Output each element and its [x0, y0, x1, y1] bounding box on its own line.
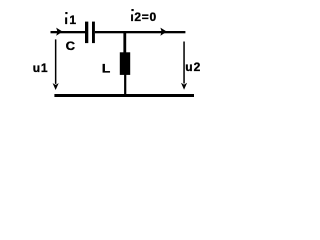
svg-text:ı2=0: ı2=0	[130, 10, 156, 24]
capacitor C left plate	[85, 22, 88, 43]
arrowhead of current i1	[56, 28, 62, 36]
arrowhead of current i2	[160, 28, 166, 36]
dot of i in label i1	[65, 12, 67, 14]
wire: top left segment (input terminal to capacitor)	[51, 31, 86, 33]
svg-text:L: L	[102, 62, 110, 76]
inductor L body	[120, 52, 130, 75]
wire: bottom rail	[54, 94, 194, 97]
voltage arrow u1 head	[53, 83, 59, 90]
svg-text:u2: u2	[185, 60, 200, 74]
svg-text:u1: u1	[33, 61, 48, 75]
capacitor C right plate	[92, 22, 95, 43]
voltage arrow u2 shaft	[183, 42, 185, 84]
voltage arrow u1 shaft	[55, 39, 57, 84]
wire: junction drop from top wire to inductor	[123, 33, 126, 53]
wire: top right segment (capacitor to output terminal)	[95, 31, 185, 33]
svg-text:C: C	[66, 39, 76, 53]
dot of i in label i2=0	[131, 9, 133, 11]
voltage arrow u2 head	[181, 83, 187, 90]
svg-text:ı1: ı1	[65, 13, 77, 27]
wire: inductor to bottom rail	[124, 75, 126, 95]
